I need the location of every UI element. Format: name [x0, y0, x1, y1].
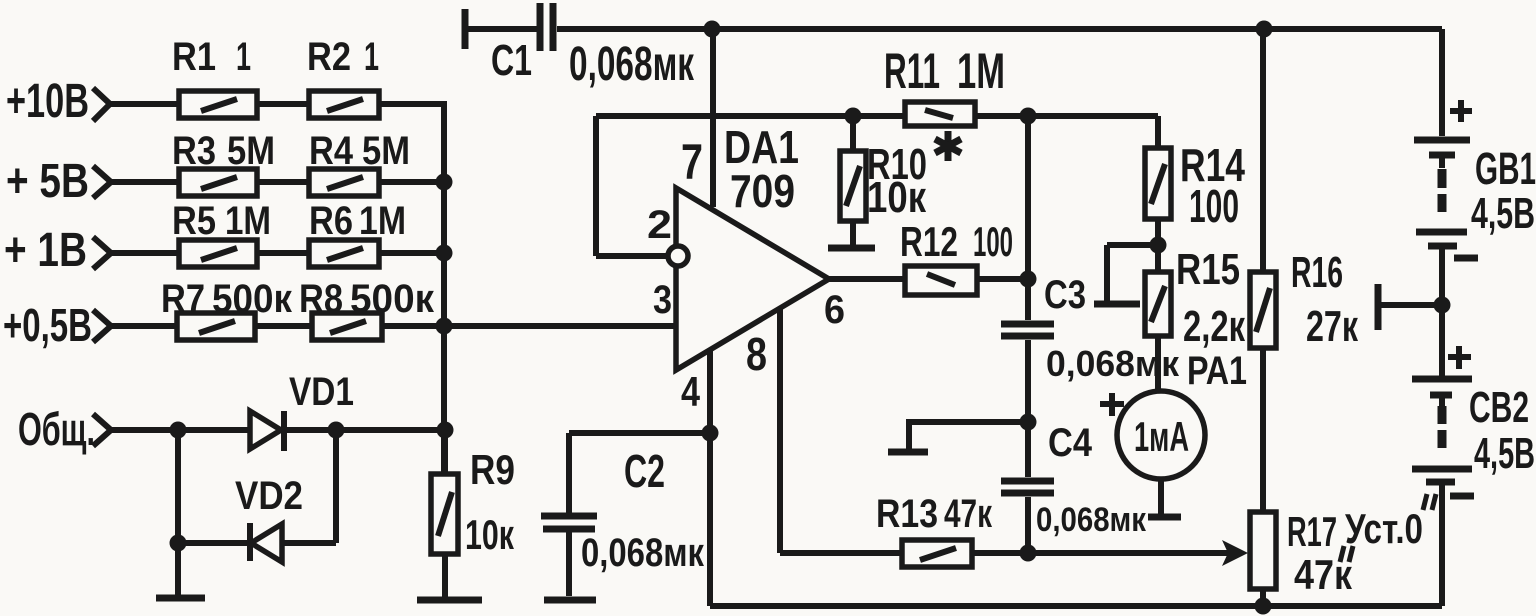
wire bottom rail [710, 603, 1442, 609]
capacitor C1 [540, 3, 553, 51]
svg-text:8: 8 [746, 328, 767, 380]
svg-text:4,5В: 4,5В [1471, 189, 1535, 238]
wire pin8 [780, 308, 902, 553]
ground (under R9) [417, 597, 482, 604]
ground (under C2) [544, 597, 596, 604]
wire R3-R4 [257, 179, 309, 185]
wiper arrow to R17 [1028, 540, 1248, 566]
wire C1 left lead [465, 26, 537, 32]
resistor R6 [309, 240, 379, 267]
wire feedback loop to pin2 [596, 116, 668, 256]
resistor R5 label [172, 199, 271, 243]
resistor R13 [902, 540, 972, 567]
input terminal +1V [4, 224, 179, 277]
capacitor C1 terminal bar [462, 9, 469, 49]
ground (C3/C4 node) [888, 422, 1028, 452]
svg-text:+10В: +10В [6, 75, 89, 128]
battery GB1 minus [1454, 255, 1478, 262]
resistor R5 [179, 240, 257, 267]
resistor R17 label [1287, 494, 1436, 598]
resistor R11 [905, 102, 975, 126]
resistor R9 label [465, 446, 515, 558]
capacitor C3 [1001, 324, 1054, 336]
svg-text:С4: С4 [1048, 421, 1093, 465]
wire R11 to R14 [974, 113, 1158, 119]
wire row1 to bus [379, 101, 447, 107]
svg-text:R13: R13 [876, 492, 938, 536]
input terminal +10V [6, 75, 179, 128]
wire R13 to node [972, 550, 1028, 556]
svg-text:6: 6 [824, 288, 845, 332]
svg-text:R17: R17 [1287, 508, 1337, 555]
wire pin7 supply [710, 29, 716, 207]
svg-text:10к: 10к [465, 511, 515, 558]
resistor R10 label [867, 140, 927, 222]
svg-text:2,2к: 2,2к [1183, 302, 1246, 351]
svg-text:47к: 47к [944, 492, 993, 536]
resistor R3 label [172, 129, 275, 173]
resistor R2 label [307, 35, 379, 79]
resistor R6 label [309, 199, 406, 243]
svg-text:100: 100 [1189, 180, 1239, 232]
wire R1-R2 [257, 101, 309, 107]
svg-text:R11: R11 [884, 43, 940, 99]
capacitor C1 label [491, 36, 695, 91]
svg-text:3: 3 [653, 278, 672, 322]
svg-text:4,5В: 4,5В [1474, 429, 1535, 478]
resistor R13 label [876, 492, 993, 536]
capacitor C3 label [1044, 273, 1180, 384]
meter PA1 plus [1100, 393, 1124, 416]
svg-text:1М: 1М [225, 199, 271, 243]
svg-text:0,068мк: 0,068мк [1036, 501, 1147, 539]
resistor R12 [905, 266, 977, 295]
resistor R1 [179, 91, 257, 118]
svg-text:С2: С2 [624, 445, 665, 497]
svg-text:R2: R2 [307, 35, 351, 79]
svg-text:47к: 47к [1294, 551, 1353, 598]
node vertical C3/C4 chain [1025, 116, 1031, 553]
svg-text:С1: С1 [491, 36, 532, 85]
svg-text:1: 1 [364, 35, 379, 79]
battery GB2 [1412, 305, 1472, 606]
op-amp DA1 [668, 188, 829, 370]
wire pin4 [707, 350, 713, 433]
wire R12 to node [977, 276, 1028, 282]
resistor R7 label [161, 277, 293, 321]
resistor R17 [1250, 512, 1276, 606]
resistor R4 [309, 169, 379, 196]
resistor R1 label [172, 35, 251, 79]
svg-text:+ 5В: + 5В [6, 155, 89, 208]
svg-text:27к: 27к [1306, 302, 1359, 351]
asterisk mark [935, 131, 961, 161]
svg-text:1: 1 [236, 35, 251, 79]
wire right column top [1439, 29, 1445, 136]
ground (left) [156, 595, 205, 602]
node junction dots common line [170, 422, 187, 439]
svg-text:VD1: VD1 [289, 370, 354, 414]
svg-text:R9: R9 [470, 446, 515, 493]
wire feedback line [596, 113, 906, 119]
resistor R11 label [884, 43, 1005, 99]
node divider bus [441, 101, 447, 474]
resistor R8 [312, 313, 382, 340]
capacitor C4 label [1036, 421, 1147, 539]
wire top rail [557, 26, 1442, 32]
resistor R15 tap [1094, 245, 1158, 304]
op-amp DA1 label [724, 121, 799, 217]
svg-text:Общ.: Общ. [18, 403, 95, 455]
svg-text:СВ2: СВ2 [1469, 383, 1529, 432]
resistor R14 label [1180, 139, 1245, 232]
svg-text:1М: 1М [957, 43, 1005, 99]
battery GB1 label [1471, 143, 1536, 238]
diode VD2 [178, 523, 336, 562]
svg-text:1мА: 1мА [1134, 413, 1189, 460]
wire VD2 branch left [175, 430, 181, 596]
wire row3 to bus [379, 250, 444, 256]
input terminal +5V [6, 155, 179, 208]
svg-text:РА1: РА1 [1187, 349, 1247, 393]
svg-text:4: 4 [681, 368, 701, 415]
ground (under R10) [828, 245, 875, 252]
svg-text:GB1: GB1 [1475, 143, 1536, 194]
svg-text:R1: R1 [172, 35, 216, 79]
svg-text:100: 100 [973, 218, 1013, 265]
svg-text:10к: 10к [867, 173, 927, 222]
battery GB1 plus [1450, 100, 1472, 122]
resistor R14 [1145, 116, 1171, 245]
svg-text:0,068мк: 0,068мк [569, 38, 695, 91]
svg-text:R15: R15 [1176, 245, 1240, 294]
svg-text:2: 2 [647, 203, 672, 247]
battery GB2 minus [1450, 493, 1474, 500]
meter PA1 [1117, 391, 1205, 479]
svg-text:7: 7 [681, 134, 703, 190]
wire R7-R8 [255, 323, 312, 329]
wire R5-R6 [257, 250, 309, 256]
svg-text:С3: С3 [1044, 273, 1086, 317]
svg-text:1М: 1М [359, 199, 406, 243]
svg-text:+ 1В: + 1В [4, 224, 87, 277]
battery GB2 plus [1448, 346, 1471, 369]
resistor R8 label [299, 277, 435, 321]
resistor R7 [177, 313, 255, 340]
wire VD2 branch right [333, 430, 339, 543]
svg-text:R16: R16 [1291, 248, 1343, 297]
resistor R2 [309, 91, 379, 118]
wire op-amp output [829, 276, 906, 282]
diode VD1 [250, 411, 445, 451]
svg-text:Уст.0: Уст.0 [1345, 505, 1423, 552]
svg-text:0,068мк: 0,068мк [581, 531, 705, 575]
resistor R3 [179, 169, 257, 196]
battery GB1 [1414, 140, 1470, 305]
wire pin4 to bottom rail [707, 433, 713, 606]
switch terminal [1378, 284, 1442, 330]
svg-text:709: 709 [730, 165, 795, 217]
capacitor C4 [1001, 481, 1054, 493]
wire row4 to op-amp pin3 [382, 323, 676, 329]
resistor R16 label [1291, 248, 1359, 351]
svg-text:R5: R5 [172, 199, 216, 243]
resistor R12 label [900, 218, 1013, 265]
input terminal Obshch (common) [18, 403, 250, 455]
resistor R15 label [1176, 245, 1246, 351]
resistor R9 [431, 430, 458, 598]
capacitor C2 [541, 433, 710, 596]
resistor R15 [1145, 245, 1171, 392]
input terminal +0,5V [3, 299, 177, 351]
wire row2 to bus [379, 179, 444, 185]
wire PA1 bottom terminal [1148, 479, 1181, 517]
resistor R4 label [309, 129, 410, 173]
svg-text:VD2: VD2 [235, 474, 303, 518]
battery GB2 label [1469, 383, 1535, 478]
svg-text:R12: R12 [900, 218, 958, 265]
resistor R16 [1250, 29, 1276, 512]
svg-text:+0,5В: +0,5В [3, 299, 92, 351]
svg-text:R6: R6 [309, 199, 353, 243]
resistor R10 [840, 116, 866, 246]
capacitor C2 label [581, 445, 705, 575]
